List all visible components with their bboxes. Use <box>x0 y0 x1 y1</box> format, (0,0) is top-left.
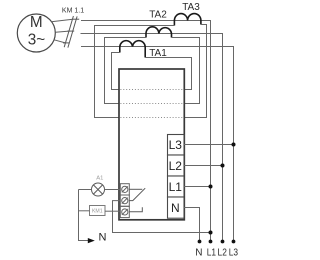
svg-text:N: N <box>99 232 107 244</box>
wire phase 3 to L3 supply line <box>81 47 234 242</box>
svg-text:L2: L2 <box>218 248 228 259</box>
wire motor to contact pole 1 <box>51 19 72 22</box>
svg-text:KM 1.1: KM 1.1 <box>62 7 84 14</box>
screw terminal X3 <box>120 206 129 217</box>
svg-text:L3: L3 <box>169 138 183 152</box>
current transformer TA3 winding <box>174 14 201 26</box>
internal CT path TA1 (dotted) <box>120 89 183 91</box>
wire phase 1 to L1 supply line <box>81 21 211 242</box>
lamp A1 <box>92 183 105 196</box>
current transformer TA2 winding <box>146 27 172 38</box>
wire TA3 secondary left ring <box>95 26 175 118</box>
wire N terminal to N supply line <box>184 208 200 242</box>
wire L2 terminal stub <box>184 165 223 167</box>
terminal box N <box>168 197 185 218</box>
svg-text:M: M <box>30 14 43 31</box>
wire motor to contact pole 2 <box>55 31 69 32</box>
svg-text:KM1: KM1 <box>92 208 103 214</box>
wire relay common to L1 supply line <box>113 201 211 233</box>
junction dot common wire at L1 <box>209 231 213 235</box>
relay changeover contact inside device <box>129 188 145 212</box>
junction dot L3 stub <box>232 143 236 147</box>
motor M1 (3-phase motor) <box>17 14 55 52</box>
current transformer TA1 winding <box>120 41 145 58</box>
wire L1 terminal stub <box>184 186 211 188</box>
internal CT path TA3 (dotted) <box>120 117 183 119</box>
arrow to N <box>88 238 95 243</box>
svg-text:N: N <box>171 201 180 215</box>
wire lamp right to screw terminal X1 <box>105 189 121 191</box>
wire TA3 secondary right return <box>184 25 207 118</box>
contactor KM1.1 three-pole contact <box>63 16 79 48</box>
wire lamp left to N rail <box>79 189 92 191</box>
junction dot L2 stub <box>221 164 225 168</box>
svg-text:L1: L1 <box>207 248 217 259</box>
internal CT path TA2 (dotted) <box>120 103 183 105</box>
svg-text:L1: L1 <box>169 180 183 194</box>
svg-text:TA2: TA2 <box>149 10 167 21</box>
svg-text:L2: L2 <box>169 159 183 173</box>
wire phase 2 to L2 supply line <box>81 34 223 242</box>
wire motor to contact pole 3 <box>54 40 65 43</box>
supply terminal dot L2 <box>221 240 225 244</box>
device box U1 (monitoring relay) <box>119 69 184 220</box>
wire TA2 secondary right return <box>172 38 200 104</box>
screw terminal X1 <box>120 184 129 195</box>
wire KM1 left to N rail <box>79 210 90 212</box>
wire TA1 secondary left ring <box>112 53 120 90</box>
terminal box L1 <box>168 176 185 197</box>
svg-text:3~: 3~ <box>28 32 46 49</box>
supply terminal dot L3 <box>232 240 236 244</box>
svg-text:TA3: TA3 <box>182 2 200 13</box>
svg-text:L3: L3 <box>229 248 239 259</box>
wire L3 terminal stub <box>184 144 234 146</box>
svg-text:N: N <box>195 248 202 259</box>
supply terminal dot L1 <box>209 240 213 244</box>
wire TA1 secondary right return <box>145 58 191 90</box>
wire TA2 secondary left ring <box>105 38 147 104</box>
terminal box L2 <box>168 155 185 176</box>
supply terminal dot N <box>198 240 202 244</box>
screw terminal X2 <box>120 195 129 206</box>
wire N rail <box>79 190 89 241</box>
terminal box L3 <box>168 135 185 156</box>
contactor coil KM1 <box>90 206 106 216</box>
junction dot L1 stub <box>209 185 213 189</box>
wire KM1 right to screw terminal X3 <box>105 210 120 212</box>
svg-text:A1: A1 <box>96 175 103 181</box>
